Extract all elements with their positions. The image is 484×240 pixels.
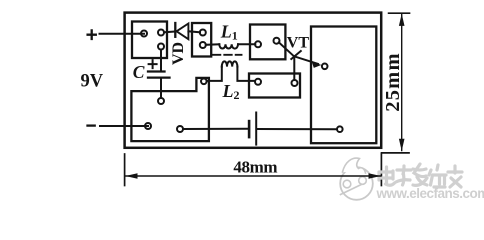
arrow 48 left: [125, 173, 137, 179]
svg-text:VD: VD: [170, 42, 187, 65]
svg-text:L: L: [220, 22, 232, 42]
wire pad1c to capacitor: [160, 50, 162, 72]
battery long plate: [255, 113, 257, 145]
wire diode to box2: [188, 31, 200, 32]
pad 3a: [255, 41, 261, 47]
watermark chinese text: [379, 164, 462, 187]
transistor arrowhead: [312, 61, 322, 68]
wire L1 to box3: [238, 43, 255, 45]
capacitor C bottom plate: [148, 76, 170, 78]
arrow 25 top: [399, 14, 405, 26]
svg-text:C: C: [133, 62, 145, 82]
inductor L2 coil: [222, 61, 238, 66]
pad box 5: [249, 74, 300, 98]
dimension line 25mm: [401, 14, 403, 151]
pad 1c: [158, 44, 164, 50]
L2 left leg: [207, 67, 222, 81]
dim extension right: [380, 154, 382, 186]
wire pad1b to diode: [164, 30, 176, 33]
pad battery left: [177, 126, 183, 132]
arrow 48 right: [369, 173, 381, 179]
capacitor C top plate: [148, 70, 165, 72]
wire pad2b to L1: [206, 43, 220, 46]
inductor L1 coil: [219, 44, 238, 48]
transistor vertical to pad5b: [293, 56, 295, 80]
big pad box bottom-left with notch: [131, 78, 209, 141]
pad box 2: [192, 23, 211, 57]
svg-text:2: 2: [234, 88, 240, 102]
pad box 3: [250, 25, 285, 60]
wire minus to board: [100, 125, 148, 127]
svg-text:9V: 9V: [81, 72, 104, 92]
pad 1b: [158, 30, 164, 36]
minus terminal: [88, 124, 95, 126]
emitter pad: [322, 64, 328, 70]
plus terminal: [88, 30, 96, 39]
svg-text:1: 1: [232, 28, 238, 42]
watermark logo: [340, 158, 373, 200]
pad 2a: [200, 30, 206, 36]
pad 3b: [274, 38, 280, 44]
svg-text:25mm: 25mm: [382, 52, 404, 111]
svg-text:48mm: 48mm: [233, 158, 277, 177]
battery short plate: [248, 121, 251, 137]
wire plus to board: [100, 33, 145, 35]
pad box 1: [132, 22, 167, 59]
dim extension bottom right: [382, 152, 410, 154]
capacitor plus sign: [149, 60, 157, 68]
wire battery to big component: [257, 128, 336, 130]
board outline: [125, 13, 382, 148]
svg-text:www.elecfans.com: www.elecfans.com: [376, 186, 484, 201]
pad 5b: [292, 80, 298, 86]
wire capacitor down: [160, 78, 162, 98]
L2 right leg: [237, 67, 254, 81]
dim extension top right: [389, 12, 410, 14]
arrow 25 bottom: [399, 139, 405, 151]
pad 2b: [200, 42, 206, 48]
diode VD cathode bar: [174, 23, 176, 37]
pad 5a: [255, 79, 261, 85]
pad 1a: [141, 31, 147, 37]
pad cap: [158, 98, 164, 104]
pad big box: [337, 126, 343, 132]
dim extension left: [124, 154, 126, 186]
transistor VT jumper diagonal: [279, 42, 318, 64]
svg-text:VT: VT: [287, 34, 310, 51]
coupling dashes: [213, 54, 242, 56]
pad notch: [201, 79, 207, 85]
wire pad to battery: [183, 128, 248, 130]
pad minus: [145, 123, 151, 129]
transistor cross tick: [291, 51, 301, 59]
diode VD triangle: [177, 24, 189, 40]
big component box right: [311, 27, 376, 144]
svg-text:L: L: [222, 81, 234, 101]
dimension line 48mm: [125, 175, 381, 177]
